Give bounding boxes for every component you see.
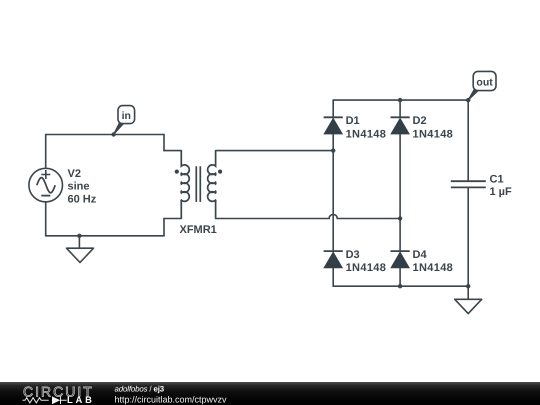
wire primary top lead: [164, 150, 181, 152]
svg-text:1 µF: 1 µF: [490, 186, 513, 198]
diode D1: [324, 117, 343, 134]
svg-text:out: out: [476, 76, 493, 88]
logo resistor-diode squiggle: [23, 397, 67, 404]
ground (left): [67, 248, 94, 262]
wire bridge column left lower (D3): [332, 151, 334, 287]
svg-text:D1: D1: [346, 115, 360, 127]
svg-text:1N4148: 1N4148: [346, 262, 387, 274]
wire jog bottom vertical: [163, 219, 165, 236]
wire top from V2 to jog: [46, 134, 164, 136]
svg-text:D4: D4: [413, 249, 428, 261]
label V2 value: [68, 168, 97, 205]
phase dot primary: [175, 170, 179, 174]
wire out vertical above C1: [467, 100, 469, 180]
core lines: [196, 166, 200, 202]
node bottom rail / C1 junction: [466, 284, 470, 288]
node B junction (D2/D4 column): [398, 216, 402, 220]
wire left vertical below V2: [45, 202, 47, 236]
wire bottom rail: [333, 285, 468, 287]
voltage source V2: [29, 168, 63, 202]
wire bridge column right lower (D4): [399, 219, 401, 287]
node bottom rail / D4 junction: [398, 284, 402, 288]
flag out: [468, 71, 496, 100]
label D4: [413, 249, 454, 274]
wire bridge column right upper (D2): [399, 100, 401, 218]
wire bridge column left upper (D1): [332, 100, 334, 151]
wire secondary bottom with hop over D1-D3 column: [216, 214, 401, 218]
svg-text:in: in: [122, 110, 131, 122]
svg-text:LAB: LAB: [67, 394, 95, 405]
svg-text:1N4148: 1N4148: [413, 128, 454, 140]
flag in: [114, 106, 135, 135]
diode D3: [324, 251, 343, 268]
label C1: [490, 174, 513, 199]
node left ground junction: [77, 234, 81, 238]
wire out vertical below C1: [467, 188, 469, 286]
node out junction: [466, 98, 470, 102]
wire right ground stub: [467, 286, 469, 299]
diode D2: [391, 117, 410, 134]
node in junction: [111, 132, 115, 136]
phase dot secondary: [218, 170, 222, 174]
logo diode triangle: [52, 396, 60, 404]
svg-text:D2: D2: [413, 115, 427, 127]
wire bottom rail left: [46, 235, 164, 237]
svg-text:D3: D3: [346, 249, 360, 261]
wire left ground stub: [78, 236, 80, 248]
svg-text:sine: sine: [68, 180, 90, 192]
secondary winding: [208, 151, 216, 219]
label D1: [346, 115, 387, 140]
node top rail / D2 junction: [398, 98, 402, 102]
wire top rail: [333, 99, 468, 101]
svg-text:XFMR1: XFMR1: [180, 224, 217, 236]
wire left vertical above V2: [45, 135, 47, 169]
svg-text:1N4148: 1N4148: [413, 262, 454, 274]
svg-text:60 Hz: 60 Hz: [68, 194, 97, 206]
svg-text:http://circuitlab.com/ctpwvzv: http://circuitlab.com/ctpwvzv: [115, 394, 228, 404]
node A junction (D1/D3 column): [331, 148, 335, 152]
transformer XFMR1: [181, 151, 216, 219]
svg-text:C1: C1: [490, 174, 504, 186]
diode D4: [391, 251, 410, 268]
svg-text:1N4148: 1N4148: [346, 128, 387, 140]
footer bar: [0, 382, 540, 405]
wire secondary top to bridge node A: [216, 150, 334, 152]
ground (right): [455, 299, 482, 313]
svg-text:V2: V2: [68, 168, 81, 180]
label D2: [413, 115, 454, 140]
wire jog top vertical: [163, 135, 165, 151]
label D3: [346, 249, 387, 274]
svg-text:adolfobos / ej3: adolfobos / ej3: [115, 384, 165, 393]
capacitor C1: [451, 181, 486, 187]
primary winding: [181, 151, 189, 219]
wire primary bottom lead: [164, 218, 181, 220]
